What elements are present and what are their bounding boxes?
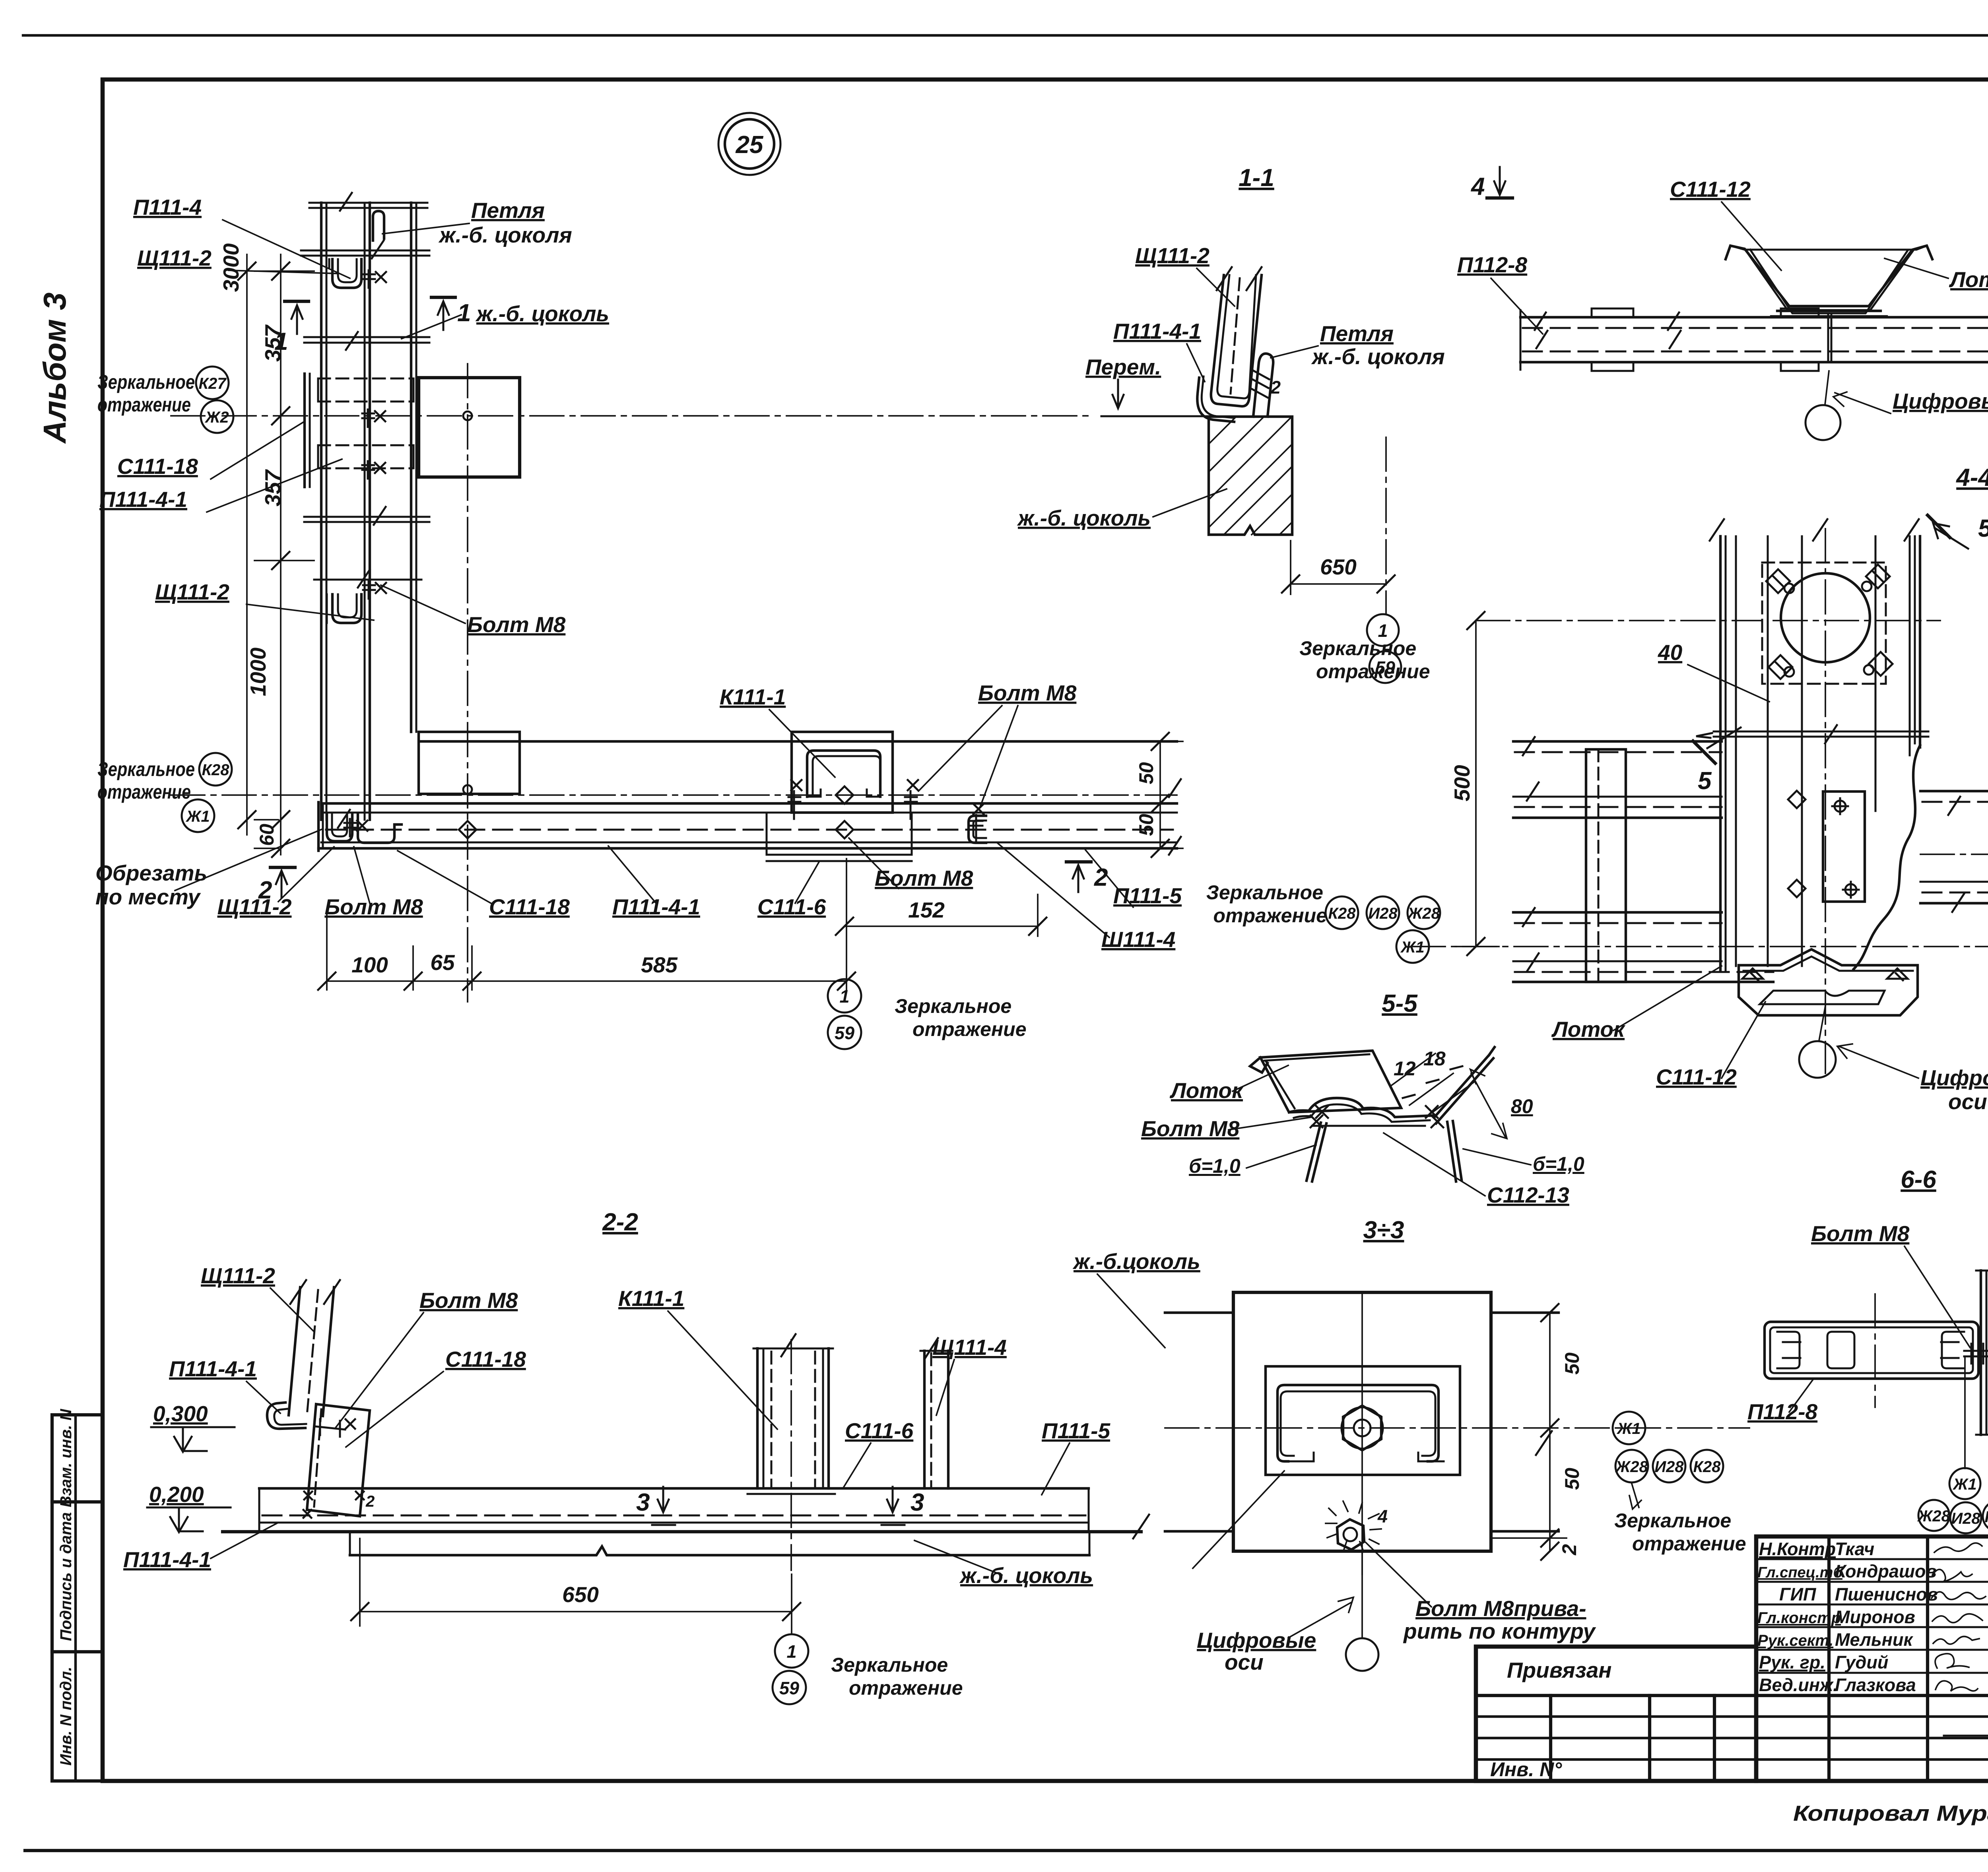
svg-text:3: 3 xyxy=(636,1489,650,1516)
svg-text:отражение: отражение xyxy=(912,1018,1027,1040)
svg-text:Ткач: Ткач xyxy=(1835,1539,1874,1559)
loop hook on column top xyxy=(373,211,384,241)
signer role names xyxy=(1757,1539,1938,1695)
svg-text:ж.-б. цоколь: ж.-б. цоколь xyxy=(475,301,609,326)
mirror circles 1 59 bottom xyxy=(828,979,861,1013)
svg-text:б=1,0: б=1,0 xyxy=(1189,1155,1241,1177)
svg-text:Инв. N подл.: Инв. N подл. xyxy=(57,1667,75,1766)
svg-text:отражение: отражение xyxy=(97,394,191,416)
svg-text:С111-18: С111-18 xyxy=(117,454,198,479)
clamp P111-4-1 xyxy=(1197,378,1234,422)
foundation bottom xyxy=(350,1546,1089,1555)
svg-text:ГИП: ГИП xyxy=(1779,1584,1817,1604)
inner channel profile xyxy=(1277,1385,1439,1461)
svg-text:650: 650 xyxy=(1320,555,1357,579)
section 6-6 view xyxy=(1747,1166,1988,1549)
svg-text:ж.-б.цоколь: ж.-б.цоколь xyxy=(1072,1249,1200,1274)
center lines xyxy=(1165,1427,1749,1429)
svg-text:3000: 3000 xyxy=(219,243,243,292)
svg-text:Болт М8: Болт М8 xyxy=(467,612,566,637)
section 3-3 view xyxy=(1165,1216,1749,1674)
break marks right beams xyxy=(1948,745,1988,980)
svg-text:ж.-б. цоколя: ж.-б. цоколя xyxy=(1311,344,1445,369)
lower square block xyxy=(419,732,520,794)
bottom welded bolt xyxy=(1337,1519,1364,1550)
svg-text:С111-18: С111-18 xyxy=(445,1347,526,1372)
tilted post Shch111-2 xyxy=(289,1287,334,1416)
bracket plates verticals xyxy=(1586,749,1626,982)
trough lotok S111-12 xyxy=(1726,246,1932,306)
svg-text:Болт М8: Болт М8 xyxy=(324,894,423,919)
svg-text:С111-12: С111-12 xyxy=(1670,177,1751,202)
svg-text:К111-1: К111-1 xyxy=(720,685,786,709)
svg-text:отражение: отражение xyxy=(97,781,191,803)
section mark 2 right xyxy=(1066,860,1091,863)
bottom margin texts xyxy=(1793,1788,1988,1842)
break marks on column xyxy=(338,193,386,828)
node marker circle 25 xyxy=(725,119,774,169)
svg-text:Щ111-2: Щ111-2 xyxy=(217,894,292,919)
signature table rows xyxy=(1756,1558,1988,1560)
svg-text:оси: оси xyxy=(1948,1089,1987,1114)
signature table columns xyxy=(1827,1536,1831,1781)
svg-text:отражение: отражение xyxy=(1213,904,1327,927)
svg-text:Пшениснов: Пшениснов xyxy=(1835,1584,1938,1604)
S111-6 plate below beam xyxy=(767,813,912,855)
svg-text:59: 59 xyxy=(779,1678,799,1698)
svg-text:59: 59 xyxy=(835,1023,854,1043)
beam profile P112-8 xyxy=(1765,1322,1978,1379)
svg-text:Н.Контр: Н.Контр xyxy=(1759,1539,1836,1559)
svg-text:И28: И28 xyxy=(1654,1458,1684,1476)
svg-text:Гл.спец.тб: Гл.спец.тб xyxy=(1757,1564,1843,1581)
svg-text:500: 500 xyxy=(1450,765,1474,801)
svg-text:Цифровые: Цифровые xyxy=(1920,1065,1988,1090)
beams left lower xyxy=(1513,911,1722,914)
dim 152 xyxy=(1037,894,1039,936)
svg-text:Гл.констр: Гл.констр xyxy=(1757,1609,1841,1627)
mirror circles xyxy=(1613,1412,1645,1444)
svg-text:К28: К28 xyxy=(1328,905,1356,922)
bolt ticks at beam left xyxy=(344,819,367,836)
bolt x marks xyxy=(1310,1106,1443,1127)
beams left upper xyxy=(1513,740,1722,743)
signatures squiggles xyxy=(1932,1543,1986,1691)
diamond marks xyxy=(459,786,853,838)
svg-text:С111-6: С111-6 xyxy=(757,894,826,919)
svg-text:П111-4-1: П111-4-1 xyxy=(123,1547,211,1572)
svg-text:5: 5 xyxy=(1978,515,1988,542)
svg-text:б=1,0: б=1,0 xyxy=(1533,1153,1584,1175)
section 1-1 xyxy=(1017,164,1445,683)
splice plates on beam xyxy=(1592,308,1988,371)
svg-text:4: 4 xyxy=(1470,173,1485,200)
panel s-curve cut xyxy=(1854,745,1920,969)
svg-text:5-5: 5-5 xyxy=(1382,990,1418,1017)
svg-text:Ж1: Ж1 xyxy=(185,808,210,825)
dim 650 xyxy=(1385,437,1387,614)
svg-text:18: 18 xyxy=(1423,1048,1446,1070)
svg-text:Щ111-2: Щ111-2 xyxy=(155,580,229,604)
horizontal joint lines on panel xyxy=(1714,731,1928,733)
svg-text:Рук.сект.: Рук.сект. xyxy=(1757,1632,1833,1649)
svg-text:Болт М8: Болт М8 xyxy=(419,1288,518,1313)
svg-text:Подпись и дата: Подпись и дата xyxy=(57,1512,75,1641)
svg-text:С111-12: С111-12 xyxy=(1656,1065,1737,1089)
svg-text:Петля: Петля xyxy=(471,198,545,223)
beam P112-8 run xyxy=(1520,316,1988,318)
svg-text:П111-4-1: П111-4-1 xyxy=(99,487,187,512)
svg-text:Перем.: Перем. xyxy=(1085,355,1161,379)
dim 500 xyxy=(1475,621,1477,947)
svg-text:4-4: 4-4 xyxy=(1955,464,1988,491)
column post P111-4 vertical lines xyxy=(320,203,322,820)
svg-text:Гудий: Гудий xyxy=(1835,1652,1888,1672)
base slab xyxy=(259,1487,1089,1490)
corrugated panel xyxy=(1719,536,1722,970)
svg-text:Петля: Петля xyxy=(1320,321,1394,346)
lotok right flap xyxy=(1434,1047,1495,1123)
big square block xyxy=(1233,1292,1491,1551)
svg-text:Болт М8: Болт М8 xyxy=(978,681,1077,705)
svg-text:Взам. инв. N: Взам. инв. N xyxy=(57,1408,75,1507)
lotok left flap xyxy=(1260,1051,1401,1112)
svg-text:50: 50 xyxy=(1135,814,1157,836)
svg-text:Копировал Муратова: Копировал Муратова xyxy=(1793,1801,1988,1825)
mirror circles 1 59 xyxy=(775,1634,808,1668)
dim horizontal 100 65 585 xyxy=(326,910,328,990)
svg-text:Зеркальное: Зеркальное xyxy=(895,995,1011,1017)
svg-text:С112-13: С112-13 xyxy=(1487,1183,1569,1207)
section mark 1 left xyxy=(285,300,309,303)
svg-text:И28: И28 xyxy=(1368,905,1398,922)
svg-text:60: 60 xyxy=(256,824,278,846)
svg-text:25: 25 xyxy=(736,131,764,159)
svg-text:по месту: по месту xyxy=(95,885,201,909)
clamp Sh111-4 on beam right xyxy=(969,816,986,843)
svg-text:5: 5 xyxy=(1698,767,1712,795)
svg-text:Болт М8прива-: Болт М8прива- xyxy=(1415,1596,1586,1621)
svg-text:2: 2 xyxy=(1558,1544,1580,1556)
title block xyxy=(1476,1536,1988,1781)
break marks on beam xyxy=(1535,312,1988,348)
svg-text:К28: К28 xyxy=(1984,1508,1988,1526)
dim 50 50 right xyxy=(1159,741,1161,848)
block center vertical axis xyxy=(467,364,468,1002)
svg-text:ж.-б. цоколь: ж.-б. цоколь xyxy=(1017,506,1151,530)
section 4-4 view xyxy=(1206,515,1988,1114)
bolt ticks mid xyxy=(362,409,385,427)
clamp P111-4-1 at post xyxy=(267,1403,305,1429)
svg-text:Глазкова: Глазкова xyxy=(1835,1675,1916,1695)
svg-text:С111-6: С111-6 xyxy=(845,1418,914,1443)
svg-text:Ж1: Ж1 xyxy=(1616,1420,1640,1437)
svg-text:2-2: 2-2 xyxy=(602,1209,638,1236)
svg-text:1-1: 1-1 xyxy=(1239,164,1274,192)
top line of cokol xyxy=(1101,415,1209,417)
svg-text:П111-4-1: П111-4-1 xyxy=(1113,319,1201,343)
S111-18 side plate xyxy=(303,374,306,487)
inner clips xyxy=(1777,1332,1800,1368)
svg-text:П111-4-1: П111-4-1 xyxy=(612,894,700,919)
section 5-5 view xyxy=(1141,990,1584,1207)
dim vertical 3000 xyxy=(246,254,248,835)
middle beam right of panel xyxy=(1920,790,1988,792)
svg-text:Зеркальное: Зеркальное xyxy=(97,758,195,780)
center dash xyxy=(1874,1294,1876,1407)
svg-text:50: 50 xyxy=(1561,1352,1583,1375)
mirror circles 1 59 xyxy=(1367,614,1399,646)
svg-text:585: 585 xyxy=(641,952,678,977)
svg-text:Ж2: Ж2 xyxy=(204,409,229,426)
svg-text:50: 50 xyxy=(1561,1468,1583,1490)
svg-text:Зеркальное: Зеркальное xyxy=(97,371,195,393)
binding table grid xyxy=(1476,1694,1988,1697)
dim lines right 50 50 2 xyxy=(1549,1313,1551,1551)
svg-text:П112-8: П112-8 xyxy=(1457,252,1528,277)
svg-text:152: 152 xyxy=(908,898,945,922)
svg-text:рить по контуру: рить по контуру xyxy=(1403,1619,1596,1643)
svg-text:Привязан: Привязан xyxy=(1507,1658,1612,1682)
svg-text:357: 357 xyxy=(260,469,285,506)
center plate with bolts xyxy=(1823,791,1865,902)
svg-text:Болт М8: Болт М8 xyxy=(1141,1116,1240,1141)
svg-text:П111-4: П111-4 xyxy=(133,195,202,219)
digital axes circle xyxy=(1799,1041,1836,1078)
svg-text:1: 1 xyxy=(457,299,471,327)
svg-text:1000: 1000 xyxy=(246,647,270,696)
column cross joints xyxy=(309,202,427,204)
svg-text:К27: К27 xyxy=(198,375,227,392)
svg-text:К111-1: К111-1 xyxy=(618,1286,684,1311)
node 26 detail xyxy=(1457,126,1988,500)
svg-text:1: 1 xyxy=(839,986,849,1007)
svg-text:Ж28: Ж28 xyxy=(1407,905,1440,922)
svg-text:К28: К28 xyxy=(1693,1458,1721,1476)
svg-text:отражение: отражение xyxy=(1632,1533,1746,1555)
section 2-2 view xyxy=(123,1209,1200,1704)
dashed plate around hole xyxy=(1762,563,1886,684)
leader to mirror circles xyxy=(1964,1356,1966,1469)
svg-text:Щ111-2: Щ111-2 xyxy=(201,1263,275,1288)
shpros post xyxy=(1980,1271,1982,1435)
svg-text:Ж28: Ж28 xyxy=(1917,1507,1950,1525)
hook petlya xyxy=(1253,353,1273,417)
lotok middle dish xyxy=(1289,1098,1434,1117)
svg-text:отражение: отражение xyxy=(1316,660,1430,683)
svg-text:2: 2 xyxy=(365,1493,375,1510)
section mark 5 top xyxy=(1928,515,1950,537)
svg-text:оси: оси xyxy=(1225,1650,1264,1674)
svg-text:6-6: 6-6 xyxy=(1901,1166,1936,1193)
second post Shch111-4 xyxy=(923,1351,926,1488)
tilted post Shch111-2 xyxy=(1211,275,1262,406)
clamp at beam left end xyxy=(327,814,352,841)
svg-text:Зеркальное: Зеркальное xyxy=(831,1654,948,1676)
bottom shoe S111-12 xyxy=(1739,949,1918,1015)
clamp Shch111-2 lower xyxy=(332,594,361,623)
svg-text:4: 4 xyxy=(1377,1506,1388,1527)
svg-text:Инв. N°: Инв. N° xyxy=(1490,1758,1562,1781)
K111-1 leader from 2-2 area xyxy=(1193,1471,1284,1568)
svg-text:Лоток: Лоток xyxy=(1949,267,1988,292)
svg-text:Вед.инж.: Вед.инж. xyxy=(1759,1675,1838,1695)
bolt tick on plate xyxy=(315,1419,355,1437)
svg-text:Щ111-2: Щ111-2 xyxy=(1135,243,1209,268)
corner bolts diamonds xyxy=(1766,565,1893,679)
bolt tick top clamp xyxy=(363,270,386,288)
sheet outer top line xyxy=(23,34,1988,37)
svg-text:П111-4-1: П111-4-1 xyxy=(169,1356,257,1381)
hex nut center xyxy=(1343,1406,1381,1450)
svg-text:И28: И28 xyxy=(1951,1510,1980,1527)
svg-text:40: 40 xyxy=(1658,640,1683,665)
section mark 1 right xyxy=(431,296,455,299)
dim 650 xyxy=(359,1538,361,1626)
left leg xyxy=(1307,1123,1326,1181)
svg-text:0,200: 0,200 xyxy=(149,1482,204,1507)
svg-text:650: 650 xyxy=(562,1582,599,1607)
section mark 2 left xyxy=(270,866,295,869)
svg-text:2: 2 xyxy=(1270,377,1281,398)
svg-text:Болт М8: Болт М8 xyxy=(1811,1221,1910,1246)
axis Zh1 horizontal xyxy=(171,794,1177,796)
svg-text:Обрезать: Обрезать xyxy=(95,861,207,885)
axis Zh2 horizontal xyxy=(171,415,1091,417)
node 25 detail xyxy=(95,113,1183,1049)
hole circle xyxy=(1781,573,1870,662)
clamp Shch111-2 top xyxy=(332,259,361,288)
svg-text:П112-8: П112-8 xyxy=(1747,1399,1818,1424)
svg-text:Щ111-2: Щ111-2 xyxy=(137,246,212,270)
svg-text:Альбом 3: Альбом 3 xyxy=(37,293,72,444)
channel dashed lower xyxy=(318,445,414,468)
inner plate K111-1 xyxy=(1266,1366,1460,1475)
axis Zh1 of 4-4 xyxy=(1411,946,1988,947)
svg-text:Зеркальное: Зеркальное xyxy=(1614,1509,1731,1532)
svg-text:50: 50 xyxy=(1135,762,1157,784)
beam horizontal lines xyxy=(419,740,1177,743)
svg-text:3: 3 xyxy=(911,1489,924,1516)
svg-text:Болт М8: Болт М8 xyxy=(875,866,973,890)
left stamp boxes xyxy=(52,1408,103,1781)
svg-text:Ш111-4: Ш111-4 xyxy=(1101,927,1175,952)
central column K111-1 xyxy=(756,1348,759,1488)
digital axis circle xyxy=(1825,371,1829,405)
svg-text:3÷3: 3÷3 xyxy=(1363,1216,1404,1244)
side beam stubs xyxy=(1165,1311,1233,1314)
bolt xyxy=(1964,1344,1988,1364)
section mark 5 left xyxy=(1693,741,1715,763)
svg-text:Зеркальное: Зеркальное xyxy=(1299,637,1416,660)
svg-text:Миронов: Миронов xyxy=(1835,1607,1915,1627)
svg-text:отражение: отражение xyxy=(849,1677,963,1699)
trough center stem xyxy=(1827,313,1829,362)
svg-text:ж.-б. цоколя: ж.-б. цоколя xyxy=(438,223,572,247)
svg-text:Ж28: Ж28 xyxy=(1615,1458,1648,1476)
svg-text:С111-18: С111-18 xyxy=(489,894,570,919)
svg-text:Рук. гр.: Рук. гр. xyxy=(1759,1652,1825,1672)
svg-text:Ж1: Ж1 xyxy=(1400,939,1424,956)
right leg xyxy=(1447,1121,1462,1181)
svg-text:100: 100 xyxy=(351,952,388,977)
svg-text:65: 65 xyxy=(430,950,455,975)
svg-text:Кондрашов: Кондрашов xyxy=(1835,1561,1937,1581)
bolt ticks on beam top xyxy=(788,780,802,819)
K111-1 bracket block xyxy=(792,732,893,813)
svg-text:К28: К28 xyxy=(202,761,229,779)
svg-text:Зеркальное: Зеркальное xyxy=(1206,881,1323,904)
tilted plate S111-18 xyxy=(307,1404,370,1516)
binding table box xyxy=(1476,1647,1756,1781)
svg-text:Мельник: Мельник xyxy=(1835,1630,1913,1650)
hatched concrete block zh.-b. cokol xyxy=(1209,417,1292,535)
channel dashed upper xyxy=(318,378,414,402)
sheet outer bottom line xyxy=(25,1849,1988,1852)
svg-text:1: 1 xyxy=(786,1641,796,1662)
svg-text:Цифровые оси: Цифровые оси xyxy=(1893,389,1988,413)
svg-text:Ж1: Ж1 xyxy=(1952,1476,1976,1493)
svg-text:1: 1 xyxy=(274,328,288,355)
dim vertical 357/357/1000/60 xyxy=(280,254,282,855)
title block outer xyxy=(1756,1536,1988,1781)
svg-text:80: 80 xyxy=(1511,1095,1533,1117)
svg-text:0,300: 0,300 xyxy=(153,1401,208,1426)
axis through hole xyxy=(1476,620,1761,621)
upper square block (zh.-b. cokol plan) xyxy=(419,378,520,477)
svg-text:Щ111-4: Щ111-4 xyxy=(932,1335,1007,1360)
svg-text:П111-5: П111-5 xyxy=(1042,1418,1110,1443)
